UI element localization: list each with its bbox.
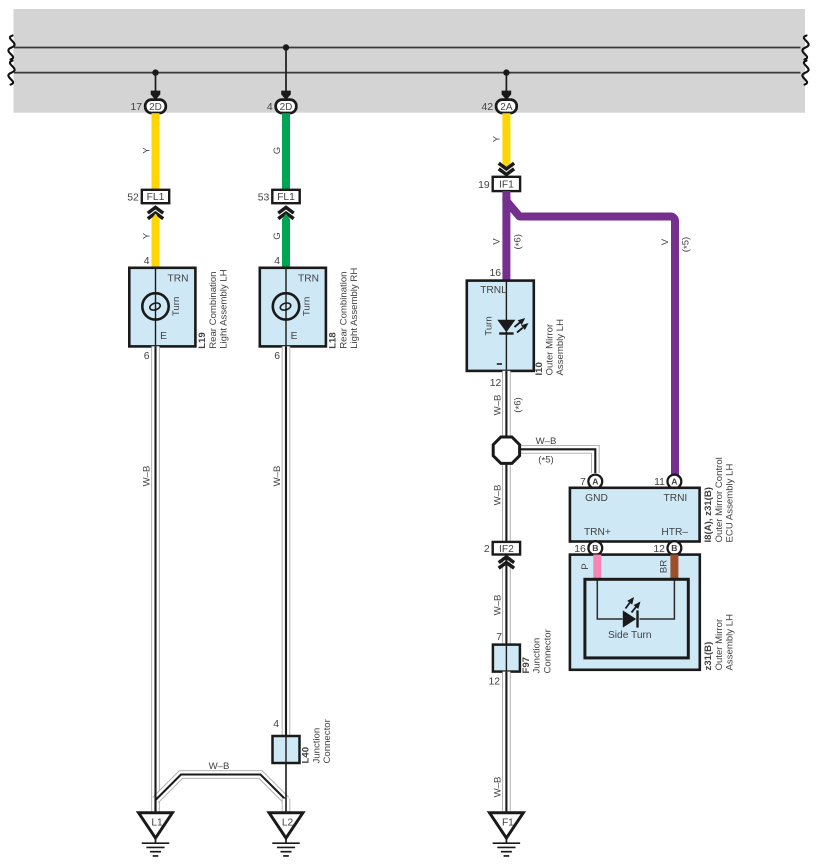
svg-text:(*6): (*6): [512, 234, 525, 249]
svg-text:4: 4: [144, 256, 150, 267]
svg-text:Junction: Junction: [311, 728, 322, 764]
svg-text:16: 16: [574, 544, 586, 555]
svg-text:z31(B): z31(B): [703, 642, 714, 671]
svg-text:6: 6: [274, 351, 280, 362]
svg-text:W–B: W–B: [209, 761, 230, 772]
svg-text:I8(A), z31(B): I8(A), z31(B): [703, 487, 714, 542]
svg-text:19: 19: [478, 180, 490, 191]
svg-text:W–B: W–B: [492, 395, 503, 416]
svg-text:W–B: W–B: [536, 436, 557, 447]
svg-text:16: 16: [489, 268, 501, 279]
svg-text:B: B: [671, 543, 677, 553]
svg-text:12: 12: [490, 378, 502, 389]
svg-text:Turn: Turn: [301, 297, 312, 316]
svg-text:G: G: [272, 147, 283, 154]
svg-text:Assembly LH: Assembly LH: [725, 614, 736, 671]
svg-text:L2: L2: [282, 817, 294, 828]
svg-text:Assembly LH: Assembly LH: [555, 319, 566, 376]
svg-text:2: 2: [484, 544, 490, 555]
svg-text:Light Assembly LH: Light Assembly LH: [219, 269, 230, 349]
svg-text:W–B: W–B: [492, 485, 503, 506]
svg-text:(*6): (*6): [512, 397, 525, 412]
svg-text:L19: L19: [197, 332, 208, 349]
svg-text:TRN: TRN: [168, 274, 189, 285]
svg-text:TRNI: TRNI: [664, 493, 688, 504]
svg-text:FL1: FL1: [147, 192, 165, 203]
svg-text:V: V: [492, 238, 503, 245]
svg-text:W–B: W–B: [492, 777, 503, 798]
svg-text:42: 42: [481, 102, 493, 113]
svg-text:TRN+: TRN+: [584, 527, 611, 538]
svg-text:FL1: FL1: [277, 192, 295, 203]
svg-text:W–B: W–B: [492, 595, 503, 616]
svg-text:Outer Mirror: Outer Mirror: [544, 323, 555, 376]
svg-text:Light Assembly RH: Light Assembly RH: [349, 268, 360, 349]
svg-text:52: 52: [127, 192, 139, 203]
svg-text:Side Turn: Side Turn: [608, 630, 652, 641]
svg-text:53: 53: [258, 192, 270, 203]
svg-text:Connector: Connector: [542, 628, 553, 673]
svg-text:Y: Y: [492, 135, 503, 142]
svg-text:I10: I10: [534, 362, 545, 375]
svg-text:(*5): (*5): [538, 455, 553, 467]
svg-text:V: V: [660, 238, 671, 245]
svg-text:IF2: IF2: [499, 544, 514, 555]
svg-text:Connector: Connector: [322, 718, 333, 763]
svg-text:L40: L40: [301, 747, 312, 764]
svg-text:17: 17: [131, 102, 143, 113]
svg-text:IF1: IF1: [499, 180, 514, 191]
svg-text:BR: BR: [658, 560, 669, 573]
svg-text:4: 4: [267, 102, 273, 113]
svg-text:B: B: [592, 543, 598, 553]
svg-text:4: 4: [274, 256, 280, 267]
svg-text:Y: Y: [141, 147, 152, 154]
svg-text:F1: F1: [502, 817, 514, 828]
svg-text:W–B: W–B: [272, 466, 283, 487]
svg-text:A: A: [592, 477, 598, 487]
svg-text:Turn: Turn: [483, 316, 494, 335]
svg-text:ECU Assembly LH: ECU Assembly LH: [725, 464, 736, 543]
svg-text:GND: GND: [585, 493, 608, 504]
svg-text:W–B: W–B: [141, 466, 152, 487]
svg-text:Turn: Turn: [171, 297, 182, 316]
svg-text:12: 12: [653, 544, 665, 555]
svg-text:TRNL: TRNL: [480, 285, 507, 296]
svg-text:F97: F97: [521, 657, 532, 674]
svg-text:E: E: [291, 331, 298, 342]
svg-text:Junction: Junction: [532, 638, 543, 674]
svg-text:6: 6: [144, 351, 150, 362]
svg-text:4: 4: [273, 719, 279, 730]
svg-text:2D: 2D: [149, 102, 162, 113]
svg-text:2D: 2D: [280, 102, 293, 113]
svg-text:L1: L1: [151, 817, 163, 828]
svg-text:2A: 2A: [500, 102, 513, 113]
svg-text:Y: Y: [141, 232, 152, 239]
svg-text:(*5): (*5): [680, 237, 693, 252]
svg-text:Outer Mirror Control: Outer Mirror Control: [714, 457, 725, 542]
svg-text:TRN: TRN: [298, 274, 319, 285]
svg-text:P: P: [580, 563, 591, 569]
svg-text:Outer Mirror: Outer Mirror: [714, 618, 725, 671]
svg-text:E: E: [160, 331, 167, 342]
svg-text:L18: L18: [328, 332, 339, 349]
svg-text:A: A: [671, 477, 677, 487]
svg-text:G: G: [272, 232, 283, 239]
svg-text:7: 7: [496, 632, 502, 643]
svg-text:Rear Combination: Rear Combination: [208, 271, 219, 348]
svg-text:12: 12: [488, 677, 500, 688]
svg-text:HTR–: HTR–: [661, 527, 688, 538]
svg-text:Rear Combination: Rear Combination: [338, 271, 349, 348]
